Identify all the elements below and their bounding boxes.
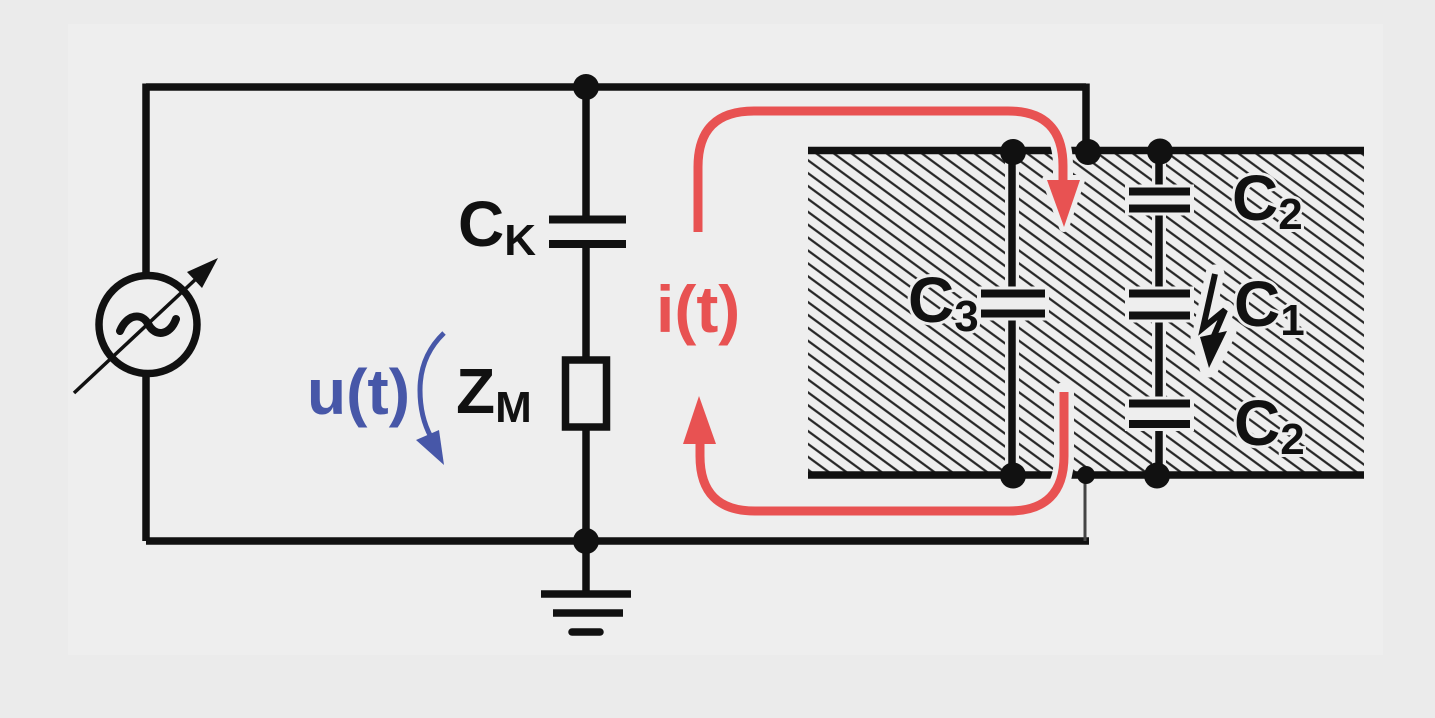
thin connector bottom electrode to bottom wire [1084, 475, 1087, 541]
junction node bottom electrode stack [1144, 463, 1170, 489]
junction node top of CK [573, 74, 599, 100]
wire stack top stub [1155, 152, 1163, 188]
AC source G (variable frequency generator) [74, 258, 218, 393]
wire C2top to C1 [1155, 212, 1163, 291]
capacitor C2 bottom plates [1129, 400, 1190, 408]
capacitor C1 gap clearing [1125, 287, 1194, 323]
breakdown spark halo [1200, 274, 1227, 368]
junction node top electrode stack [1147, 139, 1173, 165]
ground [541, 541, 631, 632]
junction node bottom of CK / ground [573, 528, 599, 554]
capacitor C1 plates [1129, 290, 1190, 298]
wire top horizontal [146, 83, 1086, 91]
capacitor C2 top gap clearing [1125, 185, 1194, 216]
capacitor C2 top plates [1129, 188, 1190, 196]
top electrode [808, 147, 1364, 155]
red arrowhead up left side [683, 396, 716, 444]
red arrowhead down into object [1047, 180, 1080, 227]
test object hatched dielectric [808, 154, 1364, 472]
red current loop i(t) [698, 111, 1064, 511]
red current loop halo [698, 111, 1064, 511]
junction node bottom electrode C3 [1000, 463, 1026, 489]
capacitor C2 bottom gap clearing [1125, 397, 1194, 432]
wire bottom horizontal [146, 537, 1089, 545]
blue voltage arrow [416, 333, 444, 465]
wire stack bottom stub [1155, 427, 1163, 475]
wire C3 lower stub [1008, 316, 1016, 475]
bottom electrode [808, 471, 1364, 479]
coupling capacitor CK branch wire upper [582, 87, 590, 217]
wire halos in hatch [1012, 156, 1159, 470]
wire C3 upper stub [1008, 152, 1016, 291]
wire ZM to bottom [582, 427, 590, 541]
wire C1 to C2bottom [1155, 318, 1163, 401]
capacitor C3 gap clearing [977, 287, 1049, 321]
wire CK to ZM [582, 246, 590, 360]
junction node top electrode feed [1075, 139, 1101, 165]
svg-text:u(t): u(t) [307, 356, 410, 428]
junction node bottom electrode connector [1077, 466, 1095, 484]
breakdown spark arrow [1200, 274, 1227, 368]
wire left vertical upper [142, 84, 150, 278]
measuring impedance ZM box [566, 360, 607, 427]
wire right vertical into object [1082, 84, 1090, 151]
capacitor CK [549, 220, 626, 245]
svg-text:i(t): i(t) [656, 272, 740, 346]
wire left vertical lower [142, 372, 150, 541]
junction node top electrode C3 [1000, 139, 1026, 165]
capacitor C3 plates [981, 290, 1045, 298]
